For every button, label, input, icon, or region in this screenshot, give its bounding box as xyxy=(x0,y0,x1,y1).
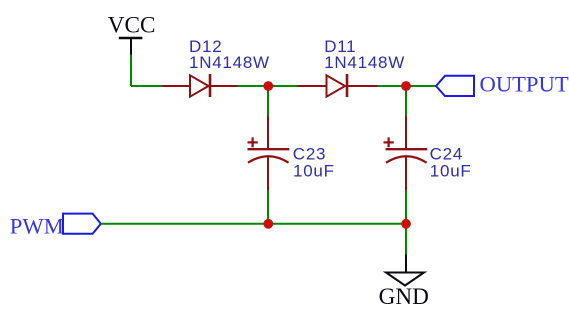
port OUTPUT xyxy=(436,71,569,96)
svg-text:GND: GND xyxy=(379,284,429,310)
wire C23 top (junction to cap) xyxy=(267,86,269,116)
capacitor C23 xyxy=(248,116,290,191)
svg-text:OUTPUT: OUTPUT xyxy=(480,71,569,96)
svg-text:10uF: 10uF xyxy=(430,162,472,181)
wire C24 bottom to bottom rail xyxy=(405,191,407,224)
svg-text:PWM: PWM xyxy=(10,213,64,238)
diode D12 xyxy=(162,74,238,97)
power symbol VCC xyxy=(108,12,156,55)
diode D11 xyxy=(298,74,377,97)
wire VCC down and right to D12 anode xyxy=(131,55,162,87)
svg-text:1N4148W: 1N4148W xyxy=(189,53,270,72)
wire C23 bottom to bottom rail xyxy=(267,191,269,224)
wire junction down to GND symbol xyxy=(405,224,407,255)
capacitor C24 xyxy=(384,116,428,191)
junction node at C23 bottom xyxy=(263,219,273,229)
port PWM xyxy=(10,213,101,238)
svg-text:VCC: VCC xyxy=(108,12,156,38)
svg-text:10uF: 10uF xyxy=(293,162,335,181)
ground symbol GND xyxy=(379,255,429,311)
svg-text:1N4148W: 1N4148W xyxy=(324,53,405,72)
wire C24 top (junction to cap) xyxy=(405,86,407,116)
wire D12 cathode to D11 anode xyxy=(238,85,298,87)
junction node at D11 cathode / C24 top xyxy=(401,81,411,91)
wire D11 cathode to OUTPUT port xyxy=(377,85,436,87)
junction node at D12 cathode / C23 top xyxy=(263,81,273,91)
junction node at C24 bottom / GND drop xyxy=(401,219,411,229)
wire bottom rail PWM to GND drop xyxy=(101,223,406,225)
